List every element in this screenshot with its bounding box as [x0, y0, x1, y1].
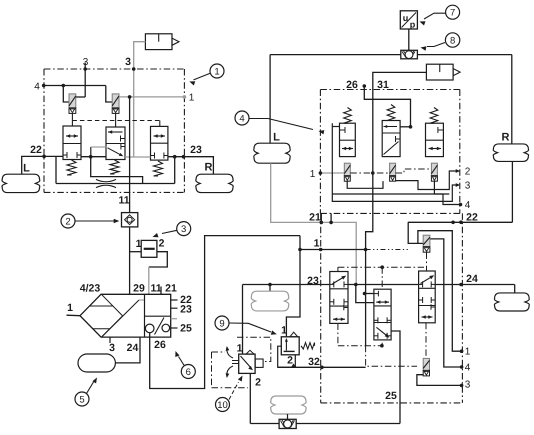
svg-text:1: 1 [214, 66, 219, 77]
svg-text:23: 23 [190, 144, 202, 156]
svg-text:26: 26 [154, 339, 166, 351]
svg-text:23: 23 [307, 275, 319, 287]
svg-text:5: 5 [79, 394, 84, 405]
svg-text:3: 3 [465, 181, 471, 192]
svg-text:4/23: 4/23 [80, 283, 101, 295]
svg-text:3: 3 [465, 380, 471, 391]
svg-text:4: 4 [239, 113, 244, 124]
svg-text:7: 7 [450, 8, 455, 19]
svg-text:4: 4 [34, 82, 40, 93]
svg-text:9: 9 [219, 318, 224, 329]
svg-text:2: 2 [65, 216, 70, 227]
svg-text:2: 2 [255, 377, 261, 389]
svg-text:3: 3 [181, 224, 186, 235]
svg-text:23: 23 [180, 304, 192, 316]
svg-text:L: L [273, 132, 280, 144]
svg-text:1: 1 [281, 325, 287, 337]
svg-text:6: 6 [186, 367, 191, 378]
svg-text:29: 29 [133, 283, 145, 295]
svg-text:L: L [23, 163, 30, 175]
svg-text:21: 21 [309, 212, 321, 224]
svg-text:1: 1 [189, 93, 195, 104]
svg-text:R: R [205, 162, 213, 174]
svg-text:32: 32 [308, 356, 320, 368]
svg-text:1: 1 [314, 238, 320, 250]
svg-text:4: 4 [465, 200, 471, 211]
svg-text:3: 3 [125, 56, 131, 68]
svg-text:1: 1 [465, 347, 471, 358]
svg-text:25: 25 [385, 390, 397, 402]
svg-text:31: 31 [377, 79, 389, 91]
svg-text:8: 8 [450, 35, 455, 46]
svg-text:1: 1 [237, 343, 243, 355]
svg-text:2: 2 [287, 355, 293, 367]
svg-text:4: 4 [465, 363, 471, 374]
svg-text:2: 2 [159, 238, 165, 250]
svg-text:10: 10 [217, 400, 228, 411]
svg-text:p: p [410, 20, 416, 30]
svg-text:1: 1 [310, 169, 316, 180]
svg-text:2: 2 [465, 167, 471, 178]
svg-text:11: 11 [150, 283, 161, 295]
svg-text:25: 25 [180, 323, 192, 335]
svg-text:24: 24 [466, 273, 478, 285]
svg-text:3: 3 [109, 342, 115, 354]
svg-text:24: 24 [127, 342, 139, 354]
svg-text:26: 26 [346, 79, 358, 91]
svg-text:1: 1 [67, 302, 73, 314]
svg-text:u: u [403, 13, 409, 23]
svg-text:R: R [502, 132, 510, 144]
svg-text:11: 11 [118, 195, 129, 207]
svg-text:21: 21 [165, 283, 177, 295]
svg-text:22: 22 [30, 144, 42, 156]
